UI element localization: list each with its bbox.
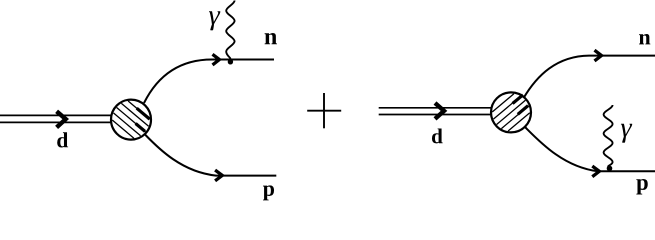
- right label p: [636, 179, 647, 194]
- right blob vertex (hatched circle): [491, 92, 531, 132]
- plus sign: [307, 93, 341, 128]
- right label d: [432, 128, 443, 143]
- right proton line: [525, 127, 655, 172]
- right proton arrow: [592, 166, 599, 177]
- left label n: [265, 33, 277, 44]
- left neutron arrow: [213, 54, 220, 65]
- left deuteron arrow: [57, 111, 66, 127]
- left deuteron double line: [0, 115, 113, 122]
- left photon wavy line: [226, 1, 234, 59]
- right deuteron arrow: [435, 103, 444, 119]
- right neutron line: [523, 56, 655, 99]
- left blob vertex (hatched circle): [111, 100, 151, 140]
- left label d: [57, 132, 68, 147]
- left proton line: [145, 135, 276, 176]
- right label gamma: [621, 124, 632, 143]
- left label gamma: [209, 11, 220, 30]
- left neutron line: [144, 60, 274, 104]
- right photon vertex dot: [607, 166, 613, 172]
- right photon wavy line: [604, 105, 613, 167]
- left proton arrow: [215, 170, 222, 181]
- left photon vertex dot: [228, 59, 233, 64]
- left label p: [263, 185, 274, 200]
- right deuteron double line: [379, 108, 493, 115]
- right label n: [639, 34, 650, 44]
- right neutron arrow: [595, 50, 602, 61]
